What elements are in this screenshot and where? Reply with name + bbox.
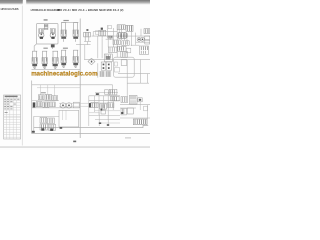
svg-text:machinecatalogic.com: machinecatalogic.com (31, 71, 98, 78)
page background (0, 0, 150, 150)
wire v y95.8 (89, 95, 120, 97)
pump P2 (50, 29, 55, 39)
wire right lower (131, 44, 140, 46)
table cell text 13 (4, 103, 6, 106)
wire c top (32, 84, 113, 86)
wire gauges a (59, 102, 89, 104)
right small valve B5 (144, 29, 150, 34)
check valve diamond D1 (88, 58, 95, 65)
table header text (5, 96, 18, 97)
cylinder port circle 1 (34, 66, 36, 68)
manifold B6 (117, 33, 128, 39)
pilot block row2 b (43, 102, 49, 107)
top band white gap (23, 0, 26, 5)
wire x147 vertical (147, 74, 149, 84)
wire x119.2 vertical (118, 29, 120, 32)
cylinder port circle 2 (44, 66, 46, 68)
box B16 (121, 60, 127, 66)
wire v x99 (98, 93, 100, 115)
wire v y119.6 (95, 119, 120, 121)
main schematic left rail (79, 19, 81, 139)
table cell text 16 (7, 107, 9, 110)
cylinder port circle 4 (63, 65, 65, 67)
small comp left of B2 (95, 31, 99, 34)
pump pair B10 (137, 37, 144, 41)
wire pump to valve row (76, 44, 91, 46)
wire v y92.6 (95, 92, 118, 94)
crossbar upper group (61, 22, 78, 24)
table cell text 6 (7, 103, 9, 106)
wire x87.4 vertical (86, 42, 88, 45)
wire x140 mid vertical (139, 102, 141, 110)
table cell text 3 (10, 98, 12, 101)
table cell text 1 (4, 98, 6, 101)
dark blob c left (33, 102, 36, 107)
dark tick rail (32, 131, 35, 133)
label above pump box (44, 19, 48, 20)
svg-text:HITACHI ZAXIS: HITACHI ZAXIS (1, 8, 19, 11)
wire supply long (84, 58, 150, 60)
wire x121 vertical (120, 25, 122, 40)
wire B1 foot (84, 41, 91, 43)
tank strainer (133, 119, 147, 125)
lower pilot block b (48, 118, 55, 124)
wire v y100.7 (89, 100, 120, 102)
dark mark m1 (96, 93, 99, 95)
wire pilot row (106, 38, 114, 40)
pump P1 (39, 29, 44, 39)
big box right C (59, 110, 79, 127)
pilot block row1 b (45, 94, 51, 100)
bottom rule (0, 147, 150, 148)
table cell text 11 (14, 98, 16, 101)
wire v x94.6 (94, 96, 96, 112)
lower block C2 top wire (34, 115, 59, 117)
control valve block left edge (88, 96, 90, 126)
twin check valves B7 (108, 36, 113, 38)
table cell text 14 (7, 105, 9, 108)
box right of gauges (73, 102, 79, 108)
cylinder U1 (61, 23, 66, 42)
valve B13 (140, 46, 149, 54)
lower pilot block a (40, 117, 47, 123)
wire v x99 low (98, 112, 100, 126)
wire x102 vertical (101, 38, 103, 58)
small box top mid (108, 26, 112, 29)
wire branch (93, 32, 117, 36)
wire x141 vertical (140, 29, 142, 36)
right boxes B10b (145, 36, 150, 44)
right comp RC3 (138, 98, 142, 102)
pump unit box P (37, 24, 59, 45)
spool H3 (101, 109, 106, 114)
wire v right y104.7 (120, 104, 150, 106)
dark tick under box (60, 127, 63, 129)
valve B12 (118, 46, 126, 51)
wire v right y108 (120, 107, 136, 109)
table cell text 9 (17, 98, 19, 101)
cylinder group upper right (61, 23, 78, 42)
solenoid block B3a (117, 25, 125, 30)
top shadow band (0, 0, 150, 5)
wire v x103.6 (103, 96, 105, 108)
wire c mid (32, 100, 59, 102)
dark blob l1 (41, 128, 44, 130)
wire x131 vertical (131, 26, 133, 47)
label group1 right (63, 20, 68, 21)
table cell text 5 (10, 100, 12, 103)
wire v y103 (90, 102, 108, 104)
wire v y112.8 (89, 112, 99, 114)
outlet valve (51, 44, 55, 47)
pilot valve station B2 (99, 28, 106, 39)
wire v x113.2 (112, 96, 114, 110)
wire c drops (41, 85, 55, 96)
lower block rail (33, 116, 35, 133)
valve B9 (122, 41, 129, 46)
wire x110.2 vertical (109, 36, 111, 40)
right spool RC4 (121, 108, 126, 115)
spool H2 (100, 104, 107, 109)
wire diamond drop (97, 63, 99, 77)
wire y83 (127, 82, 149, 84)
wire x117 vertical (116, 25, 118, 57)
table cell text 15 (4, 107, 6, 110)
wire x135 vertical (135, 33, 137, 45)
label row2 mid (63, 48, 68, 49)
cylinder port circle 3 (54, 66, 56, 68)
cylinder C2 (42, 51, 47, 68)
page divider (22, 6, 23, 146)
spool box V2 (109, 89, 117, 95)
small box mid (126, 48, 131, 53)
dark tick t2 (107, 124, 109, 126)
right cluster RC1 (121, 97, 128, 103)
label row2 left (43, 48, 47, 49)
cylinder C3 (52, 51, 58, 68)
wire pump outlet (52, 44, 54, 49)
wire pump box to cylinder row (34, 44, 36, 52)
pilot block row2 c (50, 102, 56, 107)
gauge G1 (60, 103, 66, 108)
spool H1 (89, 103, 98, 108)
wire x140 vertical (140, 60, 142, 84)
right spool RC5 (127, 108, 133, 114)
spool H4 (108, 103, 114, 108)
wire gauges b (59, 105, 89, 107)
wire right mid (136, 41, 150, 43)
wire x124.6 vertical (124, 32, 126, 40)
parts table (4, 95, 21, 139)
cylinder C5 (73, 50, 78, 67)
wire main supply (92, 35, 151, 37)
pilot block row1 c (52, 96, 58, 101)
cylinder group lower (32, 50, 78, 68)
cylinder port circle 5 (75, 65, 77, 67)
lower pilot block c (40, 124, 48, 130)
pilot valve station B1 (84, 29, 91, 41)
right cluster RC2 (129, 95, 137, 104)
dark tick bottom (73, 141, 76, 143)
table cell text 2 (7, 98, 9, 101)
wires main top area (76, 25, 150, 96)
wire v y110.8 (95, 110, 120, 112)
wires inside control block (89, 92, 150, 126)
dark tick t1 (99, 122, 101, 124)
table cell text 4 (7, 100, 9, 103)
dark blob l2 (50, 129, 53, 131)
pilot block row2 a (36, 102, 42, 107)
faint label bottom right (125, 137, 131, 138)
table cell text 17 (10, 107, 12, 110)
wire x108 vertical (107, 38, 109, 47)
table cell text 7 (4, 105, 6, 108)
wire x97.8 upper (97, 36, 99, 58)
solenoid block B3b (126, 25, 133, 31)
lower-left diagram rail (31, 81, 33, 134)
cylinder U2 (73, 23, 78, 42)
wire x127 vertical short (126, 39, 128, 45)
wire v right y118 (120, 117, 150, 119)
cylinder C4 (61, 50, 66, 67)
cylinder C1 (32, 51, 37, 68)
wire x84.8 vertical (84, 45, 86, 60)
gauge G2 (66, 103, 72, 108)
wire x127 long vertical (126, 60, 128, 96)
wire x113 vertical (112, 28, 114, 47)
wire c low (32, 107, 80, 109)
box above twin (104, 54, 112, 62)
rotary manifold R1 (114, 57, 135, 77)
wire under cylinders (32, 69, 81, 71)
tank return line 2 (32, 133, 150, 135)
table cell text 10 (4, 100, 6, 103)
top shadow band left darker part (0, 0, 23, 5)
wire block feed corner (112, 85, 114, 93)
spool box V1 (105, 90, 109, 94)
tank return line 1 (34, 125, 149, 127)
valve B8 (113, 40, 121, 44)
small box right mid (144, 106, 148, 111)
wire y73.5 (118, 73, 150, 75)
wire x107.6 vertical (107, 25, 109, 36)
table cell text 8 (10, 105, 12, 108)
wire v x108.2 (107, 92, 109, 120)
twin selector B17 (100, 62, 112, 77)
table cell text 18 (5, 112, 8, 113)
pilot block row1 a (38, 95, 44, 100)
pilot valve center (44, 24, 48, 29)
wire c top2 (37, 87, 80, 89)
wire block lower edge (99, 122, 120, 124)
valve B14 (121, 52, 128, 58)
wire v x108 low (107, 115, 109, 126)
wire v x147 low (147, 105, 149, 119)
spool V3 (111, 96, 120, 101)
lower pilot block d (48, 124, 55, 130)
label c1 (41, 92, 46, 93)
table cell text 12 (14, 103, 16, 106)
svg-text:MID ZX-3 / MID ZX-3 + BRAND: MID ZX-3 / MID ZX-3 + BRAND NEW MID ZX-3… (57, 8, 124, 12)
wire v y115.6 (89, 115, 120, 117)
valve B11 (108, 47, 117, 52)
